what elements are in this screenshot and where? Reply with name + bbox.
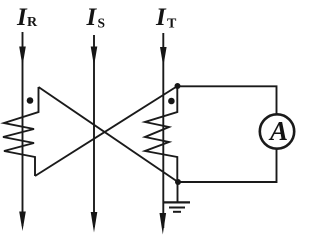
ground symbol	[177, 182, 179, 202]
CT TA2 secondary winding on phase T (zigzag)	[145, 86, 177, 182]
node K (junction dot, top of TA2)	[175, 83, 181, 89]
wire: lead from TA1 bottom terminal to node K (diagonal)	[35, 86, 178, 176]
wire: phase R conductor	[22, 32, 24, 226]
svg-text:R: R	[27, 15, 38, 30]
wire: lead from TA1 top terminal to ground node (diagonal)	[39, 87, 179, 182]
svg-text:I: I	[155, 4, 167, 31]
ammeter A (circle)	[260, 114, 294, 148]
arrow: phase S line end (bottom)	[91, 212, 98, 233]
CT TA1 secondary winding on phase R (zigzag)	[3, 87, 39, 176]
wire: phase T conductor	[162, 33, 164, 228]
arrow: phase R line end (bottom)	[19, 212, 26, 232]
svg-text:I: I	[86, 4, 98, 31]
arrow: current direction on phase R (mid)	[19, 47, 26, 67]
wire: node K to ammeter (top)	[178, 86, 277, 113]
polarity dot of CT TA2	[168, 98, 175, 105]
wire: phase S conductor	[93, 35, 95, 227]
wire: ammeter to ground node (bottom)	[178, 149, 277, 182]
polarity dot of CT TA1	[27, 97, 34, 104]
arrow: phase T line end (bottom)	[160, 213, 167, 235]
svg-text:S: S	[98, 17, 106, 32]
svg-text:T: T	[167, 17, 177, 32]
arrow: current direction on phase S (mid)	[91, 47, 98, 67]
arrow: current direction on phase T (mid)	[160, 47, 167, 67]
svg-text:A: A	[268, 116, 288, 146]
node G (junction dot, bottom of TA2 / ground)	[175, 179, 181, 185]
